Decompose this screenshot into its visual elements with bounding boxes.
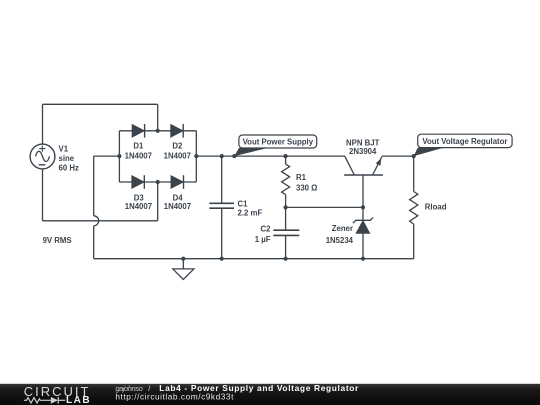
wire ground column lower [93,226,95,259]
svg-text:NPN BJT: NPN BJT [346,138,380,147]
wire R1 bottom lead [285,195,287,208]
node C1 bottom [220,257,224,261]
transistor Q1 NPN BJT [344,156,383,207]
svg-text:Zener: Zener [332,224,353,233]
wire hop over V1 return [94,216,99,226]
svg-text:1N4007: 1N4007 [164,202,191,211]
node R1 top [284,154,288,158]
wire bridge right side [195,131,197,182]
node C2 bottom [284,257,288,261]
svg-text:1 µF: 1 µF [255,235,271,244]
wire ground column upper [93,156,95,216]
svg-text:Rload: Rload [425,202,447,211]
node junction dots [117,129,416,261]
voltage source V1 [30,144,55,169]
svg-text:http://circuitlab.com/c9kd33t: http://circuitlab.com/c9kd33t [115,391,234,401]
svg-text:D1: D1 [133,142,144,151]
svg-text:1N4007: 1N4007 [125,202,152,211]
svg-text:1N4007: 1N4007 [125,151,152,160]
svg-text:1N5234: 1N5234 [326,236,354,245]
node ground tap [181,257,185,261]
diode D4 [171,175,183,189]
wire C2 bottom lead [285,235,287,258]
node flag2 tap [412,154,416,158]
svg-text:C2: C2 [261,225,272,234]
wire C1 bottom lead [221,208,223,259]
wire left mid tap to ground column [94,155,120,157]
wire C1 top lead [221,156,223,203]
wire up to bridge AC bottom node [157,182,159,221]
node zener bottom [361,257,365,261]
svg-text:2.2 mF: 2.2 mF [238,209,263,218]
node C1 top [220,154,224,158]
svg-text:R1: R1 [296,173,307,182]
flag Vout Power Supply [234,135,316,156]
resistor Rload zigzag [410,192,418,225]
logo wire glyph [24,397,65,404]
svg-text:330 Ω: 330 Ω [296,184,317,193]
node base-zener [361,205,365,209]
zener diode D5 1N5234 [353,217,373,233]
wire V1 top lead [42,104,44,144]
wire bridge left side [118,131,120,182]
svg-text:LAB: LAB [66,395,91,405]
wire base node horizontal [286,206,363,208]
ground [173,259,194,280]
wire top-left horizontal [43,103,158,105]
svg-text:sine: sine [59,154,75,163]
wire Rload top lead [413,156,415,191]
flag Vout Voltage Regulator [414,134,512,156]
wire zener top lead [362,207,364,220]
wire bottom rail [94,258,414,260]
wire emitter to load [382,155,414,157]
capacitor C2 [273,230,299,235]
capacitor C1 [209,203,234,208]
node bridge AC top [156,129,160,133]
resistor R1 zigzag [282,164,290,195]
wire down to bridge AC top node [157,104,159,131]
node R1-C2 [284,205,288,209]
wire C2 top lead [285,207,287,230]
svg-text:1N4007: 1N4007 [164,151,191,160]
wire bridge top row [119,130,196,132]
node bridge DC plus [194,154,198,158]
diode D3 [132,175,144,189]
svg-text:Vout Voltage Regulator: Vout Voltage Regulator [422,137,507,146]
wire top rail [196,155,345,157]
logo diode glyph [51,397,58,404]
node bridge DC minus [117,154,121,158]
wire zener bottom lead [362,233,364,258]
wire bridge bottom row [119,181,196,183]
diode D2 [171,124,183,138]
wire Rload bottom lead [413,224,415,259]
svg-text:Vout Power Supply: Vout Power Supply [243,138,314,147]
wire R1 top lead [285,156,287,164]
svg-text:60 Hz: 60 Hz [59,163,79,172]
svg-text:V1: V1 [59,145,69,154]
wire V1 return horizontal [43,220,158,222]
diode D1 [132,124,144,138]
wire V1 bottom lead [42,169,44,221]
node bridge AC bottom [156,180,160,184]
svg-text:D2: D2 [172,142,183,151]
node flag1 tap [232,154,236,158]
svg-text:C1: C1 [238,199,249,208]
svg-text:9V RMS: 9V RMS [43,236,72,245]
svg-text:2N3904: 2N3904 [349,147,377,156]
